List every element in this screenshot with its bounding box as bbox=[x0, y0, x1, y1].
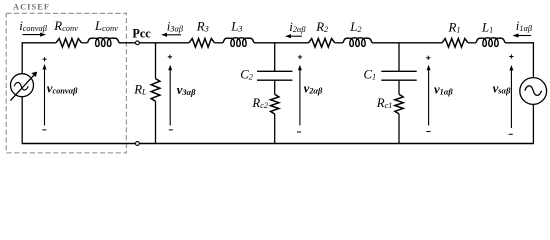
voltage arrow v_conv bbox=[44, 69, 46, 126]
svg-text:R: R bbox=[196, 19, 205, 33]
inductor L_conv bbox=[88, 38, 120, 46]
svg-text:2: 2 bbox=[324, 25, 328, 34]
svg-text:3: 3 bbox=[204, 24, 209, 33]
wire R_conv to L_conv bbox=[82, 42, 88, 44]
svg-text:conv: conv bbox=[102, 24, 118, 33]
voltage arrow v_2 bbox=[299, 69, 301, 125]
wire node2 down to C_2 bbox=[274, 43, 276, 72]
voltage arrow v_1 bbox=[428, 69, 430, 125]
svg-text:ACISEF: ACISEF bbox=[13, 3, 50, 12]
svg-text:sαβ: sαβ bbox=[497, 86, 511, 95]
wire R_c1 to bottom rail bbox=[398, 114, 400, 144]
svg-text:R: R bbox=[133, 82, 142, 96]
resistor R_c1 bbox=[395, 94, 403, 114]
svg-text:2: 2 bbox=[249, 73, 253, 82]
wire Pcc junction down to R_L bbox=[155, 43, 157, 79]
svg-text:1: 1 bbox=[456, 26, 460, 35]
svg-text:2αβ: 2αβ bbox=[293, 25, 307, 34]
wire L_conv to Pcc node bbox=[119, 42, 136, 44]
current arrow i_conv bbox=[23, 34, 42, 36]
wire C_2 to R_c2 bbox=[274, 80, 276, 94]
svg-text:R: R bbox=[376, 96, 385, 110]
inductor L_3 bbox=[223, 38, 254, 46]
wire R_c2 to bottom rail bbox=[274, 114, 276, 144]
wire converter source bottom lead bbox=[21, 97, 23, 144]
wire R_3 to L_3 bbox=[215, 42, 224, 44]
wire L_2 to R_1 (node 1 junction) bbox=[372, 42, 442, 44]
svg-text:3αβ: 3αβ bbox=[181, 88, 196, 97]
svg-text:convαβ: convαβ bbox=[52, 87, 78, 96]
current arrow i_3 bbox=[166, 34, 181, 36]
svg-text:c1: c1 bbox=[385, 101, 393, 110]
svg-text:1αβ: 1αβ bbox=[440, 88, 454, 97]
svg-text:1αβ: 1αβ bbox=[519, 24, 533, 33]
svg-text:2: 2 bbox=[357, 25, 361, 34]
svg-text:R: R bbox=[53, 19, 62, 33]
svg-text:2αβ: 2αβ bbox=[308, 86, 323, 95]
source Vs sine wave bbox=[525, 86, 542, 96]
voltage arrow v_3 bbox=[169, 69, 171, 125]
dashed converter box (ACISEF boundary) bbox=[6, 13, 126, 152]
svg-text:c2: c2 bbox=[260, 101, 268, 110]
svg-text:conv: conv bbox=[62, 24, 78, 33]
svg-text:3: 3 bbox=[237, 24, 242, 33]
svg-text:R: R bbox=[448, 21, 457, 35]
svg-text:L: L bbox=[349, 20, 357, 34]
inductor L_2 bbox=[343, 38, 372, 46]
source Vconv sine wave bbox=[14, 82, 28, 90]
svg-text:L: L bbox=[94, 19, 102, 33]
resistor R_conv bbox=[56, 39, 82, 48]
source Vconv circle (controlled AC source) bbox=[11, 74, 34, 97]
svg-text:L: L bbox=[230, 19, 238, 33]
current arrow i_2 bbox=[290, 35, 302, 37]
wire R_L to bottom rail bbox=[155, 101, 157, 143]
current arrow i_1 bbox=[518, 35, 532, 37]
capacitor C_2 plates bbox=[257, 70, 292, 72]
voltage arrow v_s bbox=[510, 70, 512, 129]
source Vconv control arrow bbox=[10, 75, 34, 101]
resistor R_1 bbox=[442, 39, 468, 48]
capacitor C_1 plates bbox=[381, 70, 416, 72]
wire source Vs to bottom rail bbox=[532, 104, 534, 144]
wire top: converter corner to R_conv bbox=[22, 42, 56, 44]
svg-text:1: 1 bbox=[489, 26, 493, 35]
resistor R_2 bbox=[309, 39, 335, 48]
wire R_2 to L_2 bbox=[335, 42, 343, 44]
svg-text:Pcc: Pcc bbox=[132, 26, 151, 40]
wire converter source top lead bbox=[21, 42, 23, 74]
resistor R_L bbox=[151, 79, 160, 102]
wire node1 down to C_1 bbox=[398, 43, 400, 72]
svg-text:R: R bbox=[315, 20, 324, 34]
node Pcc terminal circle bbox=[136, 41, 140, 45]
resistor R_3 bbox=[189, 39, 215, 48]
wire Pcc to R_3 bbox=[139, 42, 189, 44]
svg-text:1: 1 bbox=[372, 72, 376, 81]
svg-text:L: L bbox=[481, 21, 489, 35]
svg-text:convαβ: convαβ bbox=[23, 24, 48, 33]
resistor R_c2 bbox=[271, 94, 279, 114]
wire right corner down to source bbox=[532, 42, 534, 78]
source Vs circle (grid AC source) bbox=[520, 78, 547, 105]
wire L_1 to right corner bbox=[505, 42, 534, 44]
wire bottom rail bbox=[22, 143, 533, 145]
svg-text:L: L bbox=[141, 87, 147, 96]
node bottom boundary terminal circle bbox=[136, 142, 140, 146]
svg-text:3αβ: 3αβ bbox=[169, 24, 184, 33]
inductor L_1 bbox=[476, 38, 505, 46]
wire R_1 to L_1 bbox=[468, 42, 476, 44]
wire L_3 to R_2 (node 2 junction) bbox=[254, 42, 309, 44]
svg-text:R: R bbox=[251, 96, 260, 110]
wire C_1 to R_c1 bbox=[398, 80, 400, 94]
